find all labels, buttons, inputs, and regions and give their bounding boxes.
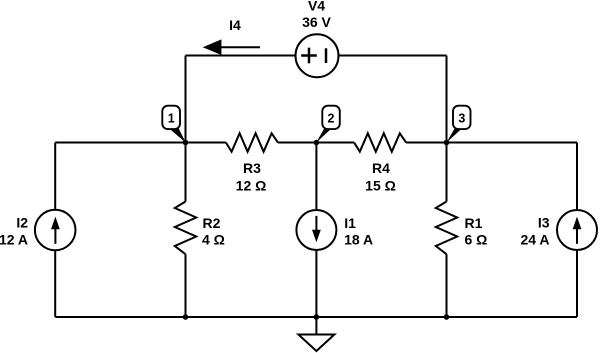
svg-text:12 Ω: 12 Ω [236,177,267,193]
wire node 2 down to I1 [315,143,317,211]
resistor R1 [436,202,457,255]
wire bottom rail [55,316,577,318]
resistor R2 [175,202,196,255]
wire main rail from R4 to right rail [406,142,577,144]
svg-text:R4: R4 [372,160,390,176]
node 3 callout [446,106,470,143]
wire R2 down to bottom rail [185,254,187,317]
svg-text:12 A: 12 A [0,231,28,247]
junction bottom right [444,314,450,320]
voltage source V4 [296,34,339,77]
current source I3 [557,210,597,250]
svg-text:24 A: 24 A [520,231,549,247]
junction node 3 [444,140,450,146]
svg-text:1: 1 [168,112,175,126]
svg-text:I4: I4 [229,17,241,33]
svg-text:R1: R1 [465,215,483,231]
junction node 1 [183,140,189,146]
current arrow I4 [203,39,260,55]
svg-text:15 Ω: 15 Ω [365,177,396,193]
wire main rail from R3 to R4 [278,142,354,144]
resistor R3 [226,133,278,151]
wire R1 down to bottom rail [446,254,448,317]
svg-text:R2: R2 [203,215,221,231]
svg-text:36 V: 36 V [302,14,331,30]
current source I2 [35,210,76,251]
current source I1 [296,210,336,250]
resistor R4 [354,133,406,151]
svg-text:I1: I1 [344,215,356,231]
svg-text:6 Ω: 6 Ω [465,231,488,247]
wire left rail lower (I2 to bottom) [54,250,56,318]
wire right rail upper (to I3) [576,143,578,211]
wire vertical from top-right corner down to node 3 [446,56,448,143]
wire node 1 down to R2 [185,143,187,202]
svg-text:R3: R3 [243,160,261,176]
wire I1 down to bottom rail [315,250,317,318]
wire right rail lower (I3 to bottom) [576,250,578,318]
svg-text:2: 2 [328,112,335,126]
wire left rail upper (to I2) [54,143,56,211]
wire main rail from left rail to R3 [55,142,226,144]
svg-text:I2: I2 [16,215,28,231]
svg-text:18 A: 18 A [344,232,373,248]
junction bottom center [314,314,320,320]
junction bottom left [183,314,189,320]
node 1 callout [162,106,186,143]
svg-text:4 Ω: 4 Ω [202,231,225,247]
wire top rail right segment [339,55,447,57]
junction node 2 [314,140,320,146]
wire node 3 down to R1 [446,143,448,202]
node 2 callout [316,106,340,143]
ground [298,317,334,351]
svg-text:V4: V4 [308,0,325,13]
svg-text:3: 3 [458,112,465,126]
wire vertical from top-left corner down to node 1 [185,56,187,143]
wire top rail left segment [186,55,296,57]
svg-text:I3: I3 [538,215,550,231]
